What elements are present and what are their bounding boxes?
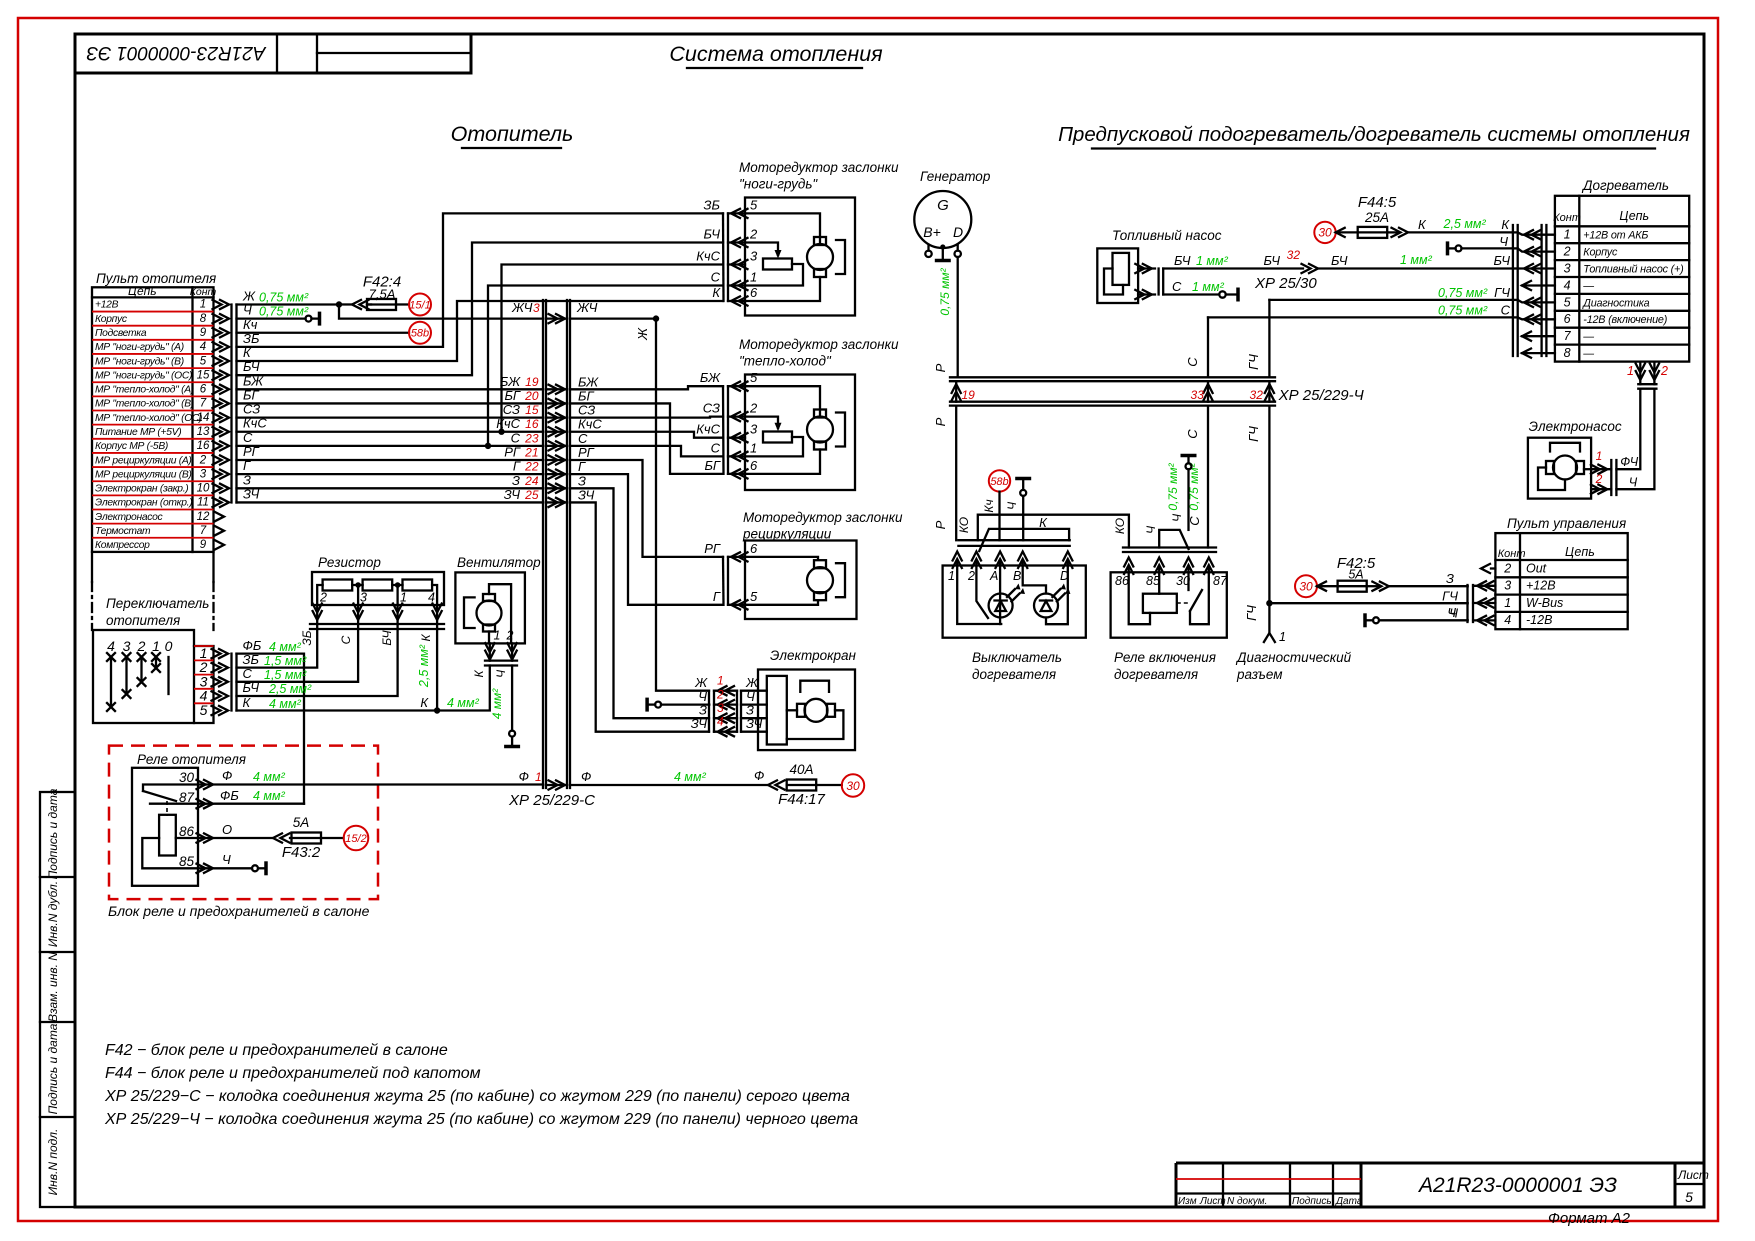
svg-text:С: С: [243, 430, 253, 445]
svg-text:F44 − блок реле и предохранит: F44 − блок реле и предохранителей под ка…: [105, 1065, 481, 1082]
svg-text:0,75 мм²: 0,75 мм²: [1166, 462, 1180, 510]
svg-text:Кч: Кч: [982, 499, 996, 512]
svg-text:Электронасос: Электронасос: [95, 512, 164, 523]
svg-text:БЧ: БЧ: [1174, 253, 1191, 268]
svg-text:Ж: Ж: [242, 288, 256, 303]
svg-text:N докум.: N докум.: [1227, 1196, 1267, 1207]
svg-text:Ч: Ч: [222, 852, 231, 867]
svg-text:2,5 мм²: 2,5 мм²: [417, 644, 431, 688]
wire Ф right with fuse F44:17: [519, 762, 842, 808]
svg-text:ФЧ: ФЧ: [1620, 455, 1639, 469]
svg-text:Ч: Ч: [1449, 606, 1458, 621]
svg-text:0,75 мм²: 0,75 мм²: [259, 290, 309, 304]
догреватель table: [1553, 178, 1689, 362]
svg-text:Инв.N подл.: Инв.N подл.: [46, 1129, 60, 1196]
svg-text:С: С: [1185, 429, 1200, 439]
svg-text:К: К: [420, 695, 429, 710]
выключатель догревателя: [943, 540, 1086, 682]
svg-text:Ч: Ч: [1629, 476, 1638, 490]
svg-text:1 мм²: 1 мм²: [1400, 253, 1433, 267]
svg-text:Предпусковой подогреватель/дог: Предпусковой подогреватель/догреватель с…: [1058, 123, 1690, 146]
svg-text:С: С: [511, 430, 521, 445]
svg-text:Дата: Дата: [1335, 1196, 1363, 1207]
svg-text:ЗБ: ЗБ: [300, 630, 314, 645]
wire ГЧ to пульт управления: [1269, 602, 1467, 604]
svg-text:Подсветка: Подсветка: [95, 328, 147, 339]
svg-text:Электронасос: Электронасос: [1529, 419, 1622, 434]
svg-text:3: 3: [1504, 579, 1511, 593]
svg-text:БЧ: БЧ: [1331, 253, 1348, 268]
svg-text:19: 19: [525, 375, 539, 389]
svg-text:СЗ: СЗ: [578, 403, 595, 418]
svg-text:24: 24: [524, 474, 539, 488]
svg-text:2,5 мм²: 2,5 мм²: [268, 682, 312, 696]
svg-text:Кч: Кч: [243, 317, 258, 332]
svg-text:2: 2: [1660, 364, 1668, 378]
svg-text:2: 2: [1503, 561, 1511, 575]
wire БГ: [237, 402, 544, 404]
svg-text:30: 30: [1318, 226, 1332, 240]
svg-text:СЗ: СЗ: [703, 401, 720, 416]
wire Ч 85 trapezoid to ground: [1144, 456, 1197, 550]
wire ГЧ to догреватель: [1269, 285, 1513, 300]
svg-text:Взам. инв. N: Взам. инв. N: [46, 952, 60, 1022]
svg-text:15: 15: [197, 369, 210, 381]
svg-text:1: 1: [750, 440, 757, 455]
svg-text:15: 15: [525, 403, 539, 417]
svg-text:КчС: КчС: [578, 417, 602, 432]
svg-text:2: 2: [506, 629, 514, 643]
svg-text:"ноги-грудь": "ноги-грудь": [739, 177, 818, 192]
svg-text:З: З: [578, 473, 586, 488]
svg-text:1: 1: [1564, 228, 1571, 242]
wire Ч from 85: [197, 852, 267, 875]
svg-text:Реле отопителя: Реле отопителя: [137, 752, 246, 767]
svg-text:Цепь: Цепь: [1619, 209, 1649, 223]
top-left document stamp: [75, 34, 471, 73]
svg-text:КчС: КчС: [696, 422, 720, 437]
svg-text:8: 8: [200, 313, 207, 325]
svg-text:F44:17: F44:17: [778, 791, 825, 808]
wire БЧ riser: [237, 243, 724, 376]
svg-text:1: 1: [1627, 364, 1634, 378]
svg-text:5А: 5А: [293, 815, 310, 830]
svg-text:+12В: +12В: [95, 300, 119, 311]
svg-text:Г: Г: [578, 459, 586, 474]
svg-text:СЗ: СЗ: [503, 402, 520, 417]
wire ГЧ vertical / диагностический разъем: [1235, 300, 1352, 682]
connector ХР 25/229-Ч: [950, 377, 1365, 405]
svg-text:Резистор: Резистор: [318, 555, 381, 570]
вентилятор: [455, 555, 541, 678]
догреватель connector: [1513, 225, 1555, 358]
wire СЗ to МР т-х: [570, 415, 723, 418]
svg-text:ЖЧ: ЖЧ: [511, 300, 533, 315]
svg-text:23: 23: [524, 431, 539, 445]
svg-text:Р: Р: [933, 363, 948, 372]
svg-text:МР "ноги-грудь" (А): МР "ноги-грудь" (А): [95, 342, 184, 353]
svg-text:9: 9: [200, 539, 207, 551]
svg-text:-12В: -12В: [1526, 613, 1552, 627]
left margin attribute boxes: [40, 788, 75, 1207]
svg-text:КО: КО: [957, 517, 971, 533]
svg-text:16: 16: [197, 440, 210, 452]
svg-text:Корпус: Корпус: [95, 314, 128, 325]
svg-text:БЧ: БЧ: [1264, 253, 1281, 268]
svg-text:Г: Г: [513, 459, 521, 474]
svg-text:30: 30: [179, 770, 195, 785]
wire Ж with fuse F42:4: [237, 274, 410, 310]
svg-text:22: 22: [524, 460, 539, 474]
svg-text:Подпись и дата: Подпись и дата: [46, 788, 60, 879]
svg-text:Конт: Конт: [190, 286, 217, 298]
svg-text:ГЧ: ГЧ: [1442, 589, 1458, 604]
svg-text:Ф: Ф: [581, 769, 591, 784]
svg-text:Формат А2: Формат А2: [1548, 1210, 1631, 1227]
svg-text:ФБ: ФБ: [220, 788, 239, 803]
wire Р vertical: [933, 406, 956, 541]
svg-text:Отопитель: Отопитель: [451, 122, 574, 146]
svg-text:0,75 мм²: 0,75 мм²: [1438, 304, 1488, 318]
svg-text:Out: Out: [1526, 561, 1547, 575]
svg-text:1: 1: [948, 569, 955, 583]
svg-text:87: 87: [1213, 574, 1228, 588]
svg-text:К: К: [243, 695, 252, 710]
svg-text:4: 4: [107, 638, 115, 654]
svg-text:58b: 58b: [990, 476, 1008, 488]
svg-text:Топливный насос: Топливный насос: [1112, 228, 1222, 243]
svg-text:4: 4: [1504, 613, 1511, 627]
svg-text:4 мм²: 4 мм²: [269, 640, 302, 654]
догреватель output wires 1 2: [1616, 362, 1668, 490]
svg-text:Ж: Ж: [745, 675, 759, 690]
svg-text:3: 3: [123, 638, 131, 654]
svg-text:БЧ: БЧ: [704, 227, 721, 242]
svg-text:1: 1: [400, 591, 407, 605]
svg-text:Реле включения: Реле включения: [1114, 650, 1216, 665]
svg-text:ЗЧ: ЗЧ: [746, 716, 763, 731]
wire КчС to МР т-х: [570, 432, 723, 438]
svg-text:Ж: Ж: [694, 675, 708, 690]
генератор: [914, 169, 991, 261]
svg-text:W-Bus: W-Bus: [1526, 596, 1563, 610]
svg-text:3: 3: [1564, 262, 1571, 276]
svg-text:Ч: Ч: [1499, 234, 1508, 249]
svg-text:Диагностика: Диагностика: [1582, 297, 1649, 309]
svg-text:86: 86: [179, 824, 195, 839]
svg-text:86: 86: [1115, 574, 1129, 588]
connector right-side labels: [576, 300, 602, 502]
svg-text:Пульт управления: Пульт управления: [1507, 516, 1626, 531]
svg-text:ХР 25/229-С: ХР 25/229-С: [508, 792, 595, 809]
svg-text:Электрокран (закр.): Электрокран (закр.): [95, 484, 188, 495]
svg-text:6: 6: [750, 541, 758, 556]
svg-text:Моторедуктор заслонки: Моторедуктор заслонки: [743, 510, 903, 525]
svg-text:С: С: [1501, 303, 1511, 318]
svg-text:К: К: [1039, 515, 1048, 530]
svg-text:F42 − блок реле и предохранит: F42 − блок реле и предохранителей в сало…: [105, 1042, 448, 1059]
svg-text:7: 7: [1564, 329, 1572, 343]
svg-text:Диагностический: Диагностический: [1235, 650, 1352, 665]
svg-text:40А: 40А: [789, 762, 813, 777]
svg-text:G: G: [937, 197, 949, 214]
svg-text:Подпись и дата: Подпись и дата: [46, 1023, 60, 1114]
переключатель отопителя: [93, 596, 237, 723]
svg-text:БЧ: БЧ: [380, 629, 394, 645]
svg-text:БЧ: БЧ: [243, 680, 260, 695]
wire БЧ fuel pump: [1163, 248, 1513, 292]
svg-text:1,5 мм²: 1,5 мм²: [264, 654, 307, 668]
wire З to электрокран: [570, 488, 709, 718]
wire БЖ to МР т-х: [570, 386, 723, 389]
wire З: [237, 487, 544, 489]
svg-text:1: 1: [1504, 596, 1511, 610]
svg-text:21: 21: [524, 446, 538, 460]
notes: [104, 1042, 858, 1128]
svg-text:разъем: разъем: [1236, 667, 1283, 682]
svg-text:—: —: [1582, 280, 1594, 292]
svg-text:РГ: РГ: [504, 445, 521, 460]
svg-text:2: 2: [716, 688, 724, 702]
svg-text:К: К: [472, 670, 486, 678]
svg-text:Лист: Лист: [1199, 1196, 1226, 1207]
svg-text:4: 4: [1564, 278, 1571, 292]
svg-text:F44:5: F44:5: [1358, 194, 1397, 211]
svg-text:11: 11: [197, 497, 209, 509]
wire С fuel pump to body: [1163, 279, 1238, 302]
svg-text:МР "тепло-холод" (А): МР "тепло-холод" (А): [95, 385, 194, 396]
svg-text:3: 3: [360, 591, 367, 605]
svg-text:ЗБ: ЗБ: [243, 331, 260, 346]
svg-text:3: 3: [750, 249, 758, 264]
wire РГ: [237, 459, 544, 461]
svg-text:85: 85: [1146, 574, 1160, 588]
wire Г to МР рецирк: [570, 474, 723, 605]
svg-text:ЗЧ: ЗЧ: [243, 486, 260, 501]
реле включения догревателя: [1111, 548, 1228, 683]
wire Ч to body: [237, 303, 320, 326]
svg-text:Электрокран: Электрокран: [770, 648, 857, 663]
svg-text:Лист: Лист: [1677, 1168, 1709, 1182]
svg-text:0,75 мм²: 0,75 мм²: [259, 305, 309, 319]
svg-text:—: —: [1582, 331, 1594, 343]
svg-text:13: 13: [197, 426, 210, 438]
svg-text:БГ: БГ: [504, 388, 520, 403]
svg-text:КчС: КчС: [496, 416, 520, 431]
svg-text:отопителя: отопителя: [106, 613, 180, 628]
svg-text:З: З: [512, 473, 520, 488]
wire Кч to 58b: [237, 317, 410, 333]
svg-text:4 мм²: 4 мм²: [447, 696, 480, 710]
svg-text:А21R23-0000001 ЭЗ: А21R23-0000001 ЭЗ: [86, 42, 266, 63]
резистор: [310, 555, 444, 629]
wire СЗ: [237, 416, 544, 418]
svg-text:3: 3: [717, 701, 724, 715]
svg-text:Изм: Изм: [1178, 1196, 1197, 1207]
svg-text:30: 30: [1299, 580, 1313, 594]
svg-text:Ч: Ч: [1170, 513, 1184, 522]
svg-text:4 мм²: 4 мм²: [253, 789, 286, 803]
wire Ч to пульт упр: [1365, 605, 1468, 627]
пульт управления table: [1495, 516, 1627, 629]
svg-text:Моторедуктор заслонки: Моторедуктор заслонки: [739, 337, 899, 352]
svg-text:С: С: [339, 635, 353, 644]
svg-text:32: 32: [1250, 388, 1264, 402]
svg-text:БЧ: БЧ: [243, 359, 260, 374]
svg-text:1: 1: [717, 674, 724, 688]
svg-text:Конт: Конт: [1553, 212, 1581, 224]
svg-text:ЖЧ: ЖЧ: [576, 300, 598, 315]
svg-text:Подпись: Подпись: [1292, 1196, 1332, 1207]
terminal 15/1: [409, 293, 431, 315]
wire С vertical: [1185, 317, 1208, 547]
svg-text:1: 1: [1279, 630, 1286, 644]
svg-text:БЖ: БЖ: [578, 374, 599, 389]
wire ЖЧ to Ж bus: [570, 315, 709, 690]
svg-text:Генератор: Генератор: [920, 169, 991, 184]
svg-text:ГЧ: ГЧ: [1246, 426, 1261, 442]
svg-text:32: 32: [1287, 248, 1301, 262]
svg-text:6: 6: [750, 458, 758, 473]
svg-text:Корпус МР (-5В): Корпус МР (-5В): [95, 441, 168, 452]
svg-text:Цепь: Цепь: [128, 284, 157, 298]
svg-text:Ж: Ж: [635, 327, 650, 341]
wire ЗЧ to электрокран: [570, 502, 709, 731]
svg-text:догревателя: догревателя: [1114, 667, 1198, 682]
svg-text:ХР 25/229−Ч − колодка соедине: ХР 25/229−Ч − колодка соединения жгута 2…: [104, 1111, 858, 1128]
svg-text:ХР 25/30: ХР 25/30: [1254, 275, 1317, 292]
svg-text:ГЧ: ГЧ: [1494, 285, 1510, 300]
svg-text:3: 3: [533, 301, 540, 315]
svg-text:5: 5: [1685, 1189, 1693, 1205]
wire С riser: [237, 445, 544, 447]
svg-text:БЖ: БЖ: [700, 370, 721, 385]
svg-text:2: 2: [137, 638, 146, 654]
svg-text:Блок реле и предохранителей в: Блок реле и предохранителей в салоне: [108, 903, 370, 919]
svg-text:ХР 25/229-Ч: ХР 25/229-Ч: [1278, 387, 1365, 404]
svg-text:4 мм²: 4 мм²: [490, 688, 504, 719]
svg-text:2,5 мм²: 2,5 мм²: [1443, 217, 1487, 231]
wire К pin5 to резистор and вентилятор: [237, 629, 490, 714]
svg-text:14: 14: [197, 412, 210, 424]
svg-text:Ф: Ф: [222, 768, 232, 783]
svg-text:5А: 5А: [1348, 568, 1363, 582]
svg-text:К: К: [1418, 217, 1427, 232]
svg-text:ГЧ: ГЧ: [1246, 354, 1261, 370]
svg-text:Ч: Ч: [494, 669, 508, 678]
svg-text:Цепь: Цепь: [1565, 545, 1595, 559]
svg-text:0,75 мм²: 0,75 мм²: [1438, 286, 1488, 300]
svg-text:В: В: [1013, 569, 1021, 583]
svg-text:4 мм²: 4 мм²: [269, 697, 302, 711]
wire КО pin2 to реле 86: [978, 515, 1129, 548]
svg-text:B+: B+: [923, 224, 941, 240]
svg-text:БГ: БГ: [243, 387, 259, 402]
svg-text:Вентилятор: Вентилятор: [457, 555, 541, 570]
svg-text:К: К: [1501, 217, 1510, 232]
svg-text:3: 3: [750, 422, 758, 437]
svg-text:Корпус: Корпус: [1583, 247, 1618, 259]
svg-text:ХР 25/229−С − колодка соедине: ХР 25/229−С − колодка соединения жгута 2…: [104, 1088, 850, 1105]
svg-text:4: 4: [428, 591, 435, 605]
fuse F44:5: [1314, 194, 1513, 243]
wire К pin D jumper: [979, 515, 1069, 551]
svg-text:15/2: 15/2: [345, 833, 366, 845]
svg-text:З: З: [243, 472, 251, 487]
svg-text:8: 8: [1564, 346, 1571, 360]
svg-text:7: 7: [200, 398, 207, 410]
svg-text:7: 7: [200, 525, 207, 537]
wire ЖЧ branch: [339, 300, 543, 319]
svg-text:19: 19: [962, 388, 976, 402]
wire О from 86 with fuse F43:2: [197, 815, 344, 861]
motor-reducer заслонки рециркуляции: [704, 510, 903, 619]
svg-text:КчС: КчС: [696, 249, 720, 264]
svg-text:1: 1: [494, 629, 501, 643]
svg-text:Ч: Ч: [1005, 501, 1019, 510]
svg-text:1,5 мм²: 1,5 мм²: [264, 668, 307, 682]
svg-text:Р: Р: [933, 417, 948, 426]
svg-text:С: С: [1185, 357, 1200, 367]
svg-text:12: 12: [197, 511, 210, 523]
svg-text:5: 5: [200, 355, 207, 367]
wire ЗБ riser: [237, 213, 724, 346]
svg-text:4: 4: [200, 341, 206, 353]
svg-text:БЧ: БЧ: [1494, 253, 1511, 268]
svg-text:ЗЧ: ЗЧ: [578, 487, 595, 502]
svg-text:К: К: [419, 634, 433, 642]
title block: [1176, 1163, 1709, 1227]
svg-text:КО: КО: [1113, 518, 1127, 534]
svg-text:С: С: [1172, 279, 1182, 294]
svg-text:З: З: [1446, 571, 1454, 586]
svg-text:ЗБ: ЗБ: [704, 197, 721, 212]
svg-text:Топливный насос (+): Топливный насос (+): [1583, 264, 1683, 276]
svg-text:-12В (включение): -12В (включение): [1583, 314, 1667, 326]
svg-text:16: 16: [525, 417, 539, 431]
connector table: Пульт отопителя: [92, 271, 217, 630]
wire Ч догреватель to body: [1448, 234, 1513, 255]
Ч wire to электрокран with body: [647, 698, 709, 712]
svg-text:5: 5: [750, 589, 758, 604]
svg-text:2: 2: [1595, 472, 1603, 486]
svg-text:—: —: [1582, 348, 1594, 360]
svg-text:Догреватель: Догреватель: [1581, 178, 1669, 193]
wire ЗЧ: [237, 501, 544, 503]
svg-text:+12В от АКБ: +12В от АКБ: [1583, 230, 1648, 242]
svg-text:58b: 58b: [411, 328, 429, 340]
svg-text:МР "ноги-грудь" (В): МР "ноги-грудь" (В): [95, 356, 184, 367]
svg-text:25А: 25А: [1364, 210, 1389, 225]
svg-text:Ф: Ф: [754, 768, 764, 783]
топливный насос: [1097, 228, 1221, 303]
svg-text:5: 5: [200, 702, 208, 718]
svg-text:С: С: [578, 431, 588, 446]
svg-text:0: 0: [165, 638, 173, 654]
wire ЗБ pin2 to резистор: [237, 629, 318, 668]
wire РГ to МР рецирк: [570, 460, 723, 557]
wire С pin3 to резистор: [237, 629, 359, 682]
fuse F42:5: [1295, 555, 1468, 597]
пульт connector arrows and bars: [213, 300, 237, 550]
wire БЧ pin4 to резистор: [237, 629, 398, 696]
wire С to догреватель: [1208, 303, 1513, 318]
svg-text:догревателя: догревателя: [972, 667, 1056, 682]
svg-text:10: 10: [197, 483, 210, 495]
svg-text:0,75 мм²: 0,75 мм²: [938, 267, 952, 315]
svg-text:БГ: БГ: [578, 388, 594, 403]
svg-text:С: С: [711, 270, 721, 285]
